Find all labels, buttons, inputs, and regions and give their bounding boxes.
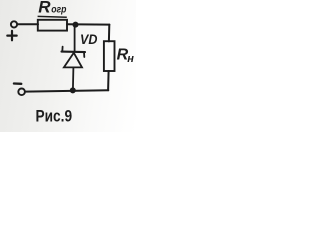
wire top-middle bbox=[67, 23, 109, 25]
label + bbox=[7, 31, 16, 40]
wire top-left bbox=[17, 23, 38, 25]
wire zener anode lead bbox=[72, 67, 75, 90]
wire top-right vertical bbox=[108, 25, 110, 42]
label R_ogr bbox=[38, 0, 67, 17]
svg-text:R: R bbox=[38, 0, 51, 17]
wire bottom-right vertical bbox=[107, 71, 110, 90]
resistor Rn bbox=[104, 41, 115, 71]
wire zener cathode lead bbox=[74, 27, 76, 51]
label - bbox=[14, 82, 21, 85]
svg-text:н: н bbox=[127, 53, 134, 65]
terminal + (positive input) bbox=[11, 21, 17, 27]
svg-text:огр: огр bbox=[51, 3, 67, 15]
zener diode VD bbox=[62, 47, 86, 68]
resistor R_ogr bbox=[38, 20, 67, 31]
svg-text:VD: VD bbox=[80, 31, 97, 47]
svg-text:Рис.9: Рис.9 bbox=[36, 107, 73, 126]
terminal - (negative input) bbox=[18, 89, 25, 96]
node junction top bbox=[73, 22, 79, 28]
wire bottom rail bbox=[25, 90, 108, 91]
label Rn bbox=[117, 47, 135, 65]
node junction bottom bbox=[70, 87, 76, 93]
